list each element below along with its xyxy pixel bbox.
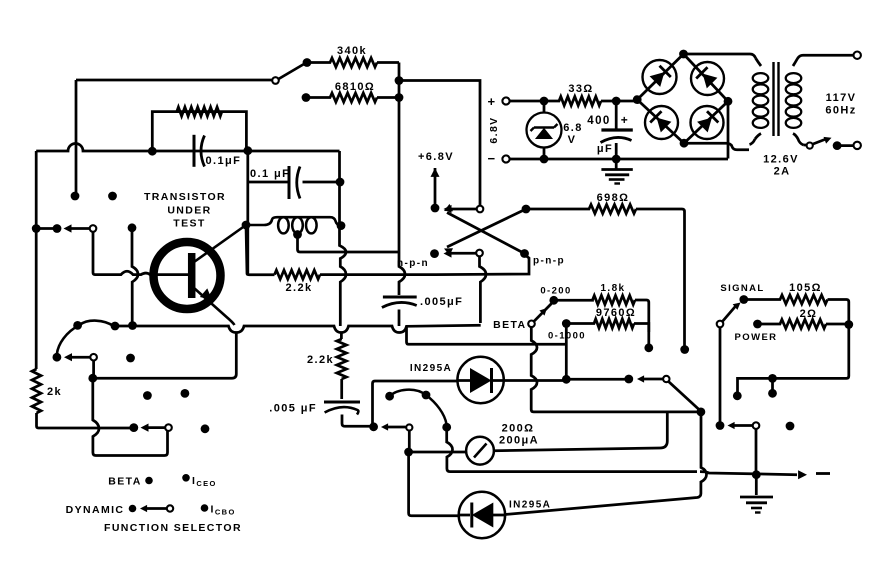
svg-text:V: V <box>568 134 577 146</box>
diode D3 circle <box>645 106 678 139</box>
svg-text:6810Ω: 6810Ω <box>335 81 375 93</box>
node rail x132 <box>128 321 137 330</box>
node sel-a <box>369 422 378 431</box>
transistor Q1 emitter arrow <box>200 288 212 300</box>
diode D1 <box>650 72 665 87</box>
arrow BETA <box>539 308 547 316</box>
svg-text:.005μF: .005μF <box>420 296 463 308</box>
selector common BETA <box>528 321 535 328</box>
ground G1 <box>615 159 618 169</box>
wire bridge bottom link <box>684 143 749 150</box>
main rail <box>115 325 481 332</box>
arrow sel-a <box>381 423 388 430</box>
diode DX1 symbol <box>470 368 492 393</box>
wire top rail to switch S1 <box>76 79 272 82</box>
node bridge right <box>724 97 733 106</box>
legend dot ICBO <box>201 504 209 512</box>
wire xfmr bottom out <box>804 144 807 147</box>
diode DX2 symbol <box>472 503 494 528</box>
box resistor link <box>152 112 246 151</box>
resistor 340k <box>307 58 399 67</box>
wire BETA wiper <box>531 327 699 412</box>
wire DX1 to contact <box>566 378 625 381</box>
capacitor C2 plate2 <box>297 167 300 199</box>
blade DX1 diag <box>669 382 700 410</box>
node row2-y378 <box>88 374 97 383</box>
svg-text:117V: 117V <box>826 92 857 104</box>
selector common row2 <box>90 354 97 361</box>
wire x399 to rail <box>398 310 401 327</box>
svg-text:IN295A: IN295A <box>410 363 452 374</box>
arrow T1 <box>444 205 452 213</box>
wire bridge top to xfmr <box>684 54 756 58</box>
diode DX2 line <box>459 514 505 517</box>
transformer primary leads <box>755 58 761 139</box>
arrow row1 <box>64 224 72 232</box>
svg-text:2Ω: 2Ω <box>800 308 818 320</box>
meter M1 needle <box>474 444 487 458</box>
diode D4 <box>697 118 712 133</box>
wire S2 to terminal <box>837 144 853 147</box>
wire output arrow <box>700 472 797 475</box>
node bridge bottom <box>680 139 689 148</box>
diode DX1 right lead <box>492 379 564 382</box>
wire 0-1000 drop <box>565 324 568 380</box>
svg-text:105Ω: 105Ω <box>789 282 822 294</box>
arrow DYNAMIC <box>140 505 147 512</box>
svg-text:+: + <box>488 94 497 109</box>
capacitor C5 .005uF plate1 <box>324 401 360 404</box>
resistor R4 698 <box>526 205 685 347</box>
transistor Q1 circle <box>154 242 221 309</box>
diode D2 <box>703 74 718 89</box>
diag X A <box>447 209 526 247</box>
contact dot row2 a <box>73 321 82 330</box>
resistor R10 2.2k vert <box>337 333 347 380</box>
diode DX2 circle <box>459 492 505 538</box>
svg-text:+6.8V: +6.8V <box>418 151 454 163</box>
svg-text:12.6V: 12.6V <box>763 154 799 166</box>
legend dot DYNAMIC <box>129 505 137 513</box>
bridge frame <box>637 54 728 143</box>
diag X B <box>447 213 525 254</box>
svg-text:−: − <box>488 151 497 166</box>
capacitor C3 .005uF plate2 <box>382 302 417 307</box>
svg-text:200μA: 200μA <box>499 435 539 447</box>
node X right top <box>522 205 531 214</box>
node L1 tap <box>293 230 302 239</box>
blade T2 <box>449 252 476 255</box>
blade T1 <box>449 208 477 211</box>
wire x447 down <box>447 427 697 471</box>
switch S2 blade <box>813 139 826 144</box>
node C2 right <box>336 178 345 187</box>
arrow row3 <box>141 424 149 432</box>
blade SP <box>722 305 737 322</box>
contact dot row2 b <box>53 353 62 362</box>
diode D2 circle <box>691 62 724 95</box>
rail start dot <box>111 322 120 331</box>
arrow X B <box>444 204 453 211</box>
resistor R6 1.8k <box>554 296 649 346</box>
wire DX1 blade <box>643 378 663 381</box>
arrow +6.8V up <box>431 168 440 177</box>
legend circle DYNAMIC <box>167 505 173 511</box>
capacitor C2 plate1 <box>288 166 291 199</box>
capacitor C4 400uF <box>615 101 618 129</box>
transformer core <box>774 62 779 136</box>
capacitor C1 0.1uF plate1 <box>193 135 196 167</box>
node DX1-0-1000 <box>562 375 571 384</box>
selector common sel <box>406 424 412 430</box>
contact dot sp left <box>733 391 742 400</box>
meter M1 circle <box>466 437 494 465</box>
contact dot row3 right <box>201 424 210 433</box>
node row3 <box>129 423 138 432</box>
wire bridge right drop <box>727 101 730 158</box>
svg-text:BETA: BETA <box>108 476 141 488</box>
svg-text:400: 400 <box>587 115 610 127</box>
wire sp mid stub <box>771 378 774 390</box>
wire xfmr top out <box>803 54 854 57</box>
dash output <box>816 472 830 475</box>
node output-ground <box>752 470 761 479</box>
wire x399 hop <box>399 252 405 295</box>
diode DX1 circle <box>457 357 503 403</box>
svg-text:TEST: TEST <box>173 218 205 230</box>
zener D5 leads <box>543 101 546 159</box>
wire plus rail <box>510 100 557 103</box>
wire T2 drop to rail <box>480 256 487 323</box>
contact dot DX1 end <box>624 375 633 384</box>
resistor R7 9760 <box>566 319 649 332</box>
node bridge top <box>679 50 688 59</box>
svg-text:33Ω: 33Ω <box>568 83 593 95</box>
svg-text:6.8V: 6.8V <box>488 116 500 143</box>
capacitor C2 lead left <box>248 181 288 184</box>
wire row3 blade <box>147 426 165 429</box>
wire meter drop <box>408 431 411 449</box>
node zener bottom <box>540 155 549 164</box>
arrow SP <box>733 303 741 310</box>
svg-text:2k: 2k <box>47 386 62 398</box>
left rail x36 lower <box>37 413 131 428</box>
selector common T1 <box>477 206 484 213</box>
resistor 6810 <box>306 93 399 102</box>
arc rail to contacts <box>57 321 114 354</box>
node A1 <box>395 76 404 85</box>
transistor Q1 collector <box>194 225 246 262</box>
capacitor C3 .005uF plate1 <box>383 296 417 299</box>
wire row1 <box>36 227 54 230</box>
contact dot x132 top <box>128 223 137 232</box>
svg-text:POWER: POWER <box>735 332 778 343</box>
capacitor C1 0.1uF plate2 <box>201 136 205 167</box>
resistor R8 105 <box>744 295 849 322</box>
wire L1 tap down <box>298 235 400 253</box>
node SP bottom <box>716 421 725 430</box>
node npn <box>430 249 439 258</box>
switch S1 blade <box>279 64 305 79</box>
node box right <box>243 146 252 155</box>
resistor R5 33 <box>557 97 634 106</box>
contact dot arc b <box>422 391 431 400</box>
node filter bottom <box>612 155 621 164</box>
wire SP2 drop <box>755 429 758 472</box>
wire 33 to bridge <box>634 100 637 103</box>
resistor Rbox <box>177 107 222 116</box>
wire collector branch <box>246 225 275 275</box>
selector common SP2 <box>753 422 760 429</box>
wire x340 vertical <box>340 151 347 326</box>
arrow SP bottom <box>728 422 735 429</box>
diode D3 <box>657 118 672 133</box>
wire DX2 right <box>505 414 706 515</box>
arrow DX1 blade <box>637 375 644 382</box>
diode DX1 line <box>457 379 470 382</box>
transistor Q1 base lead <box>96 271 188 274</box>
wire sp right net <box>738 325 849 393</box>
wire cap3b chain <box>340 379 343 399</box>
wire right bus vertical x399 <box>398 63 401 253</box>
wire x247 drop <box>246 151 249 274</box>
wire R2 to pnp <box>320 255 529 275</box>
node 0-1000 <box>562 319 571 328</box>
wire x132 vertical <box>132 228 138 322</box>
ground G2 <box>740 496 773 499</box>
svg-text:n-p-n: n-p-n <box>397 258 429 269</box>
svg-text:2.2k: 2.2k <box>307 354 334 366</box>
node sp mid <box>768 374 777 383</box>
svg-text:p-n-p: p-n-p <box>533 256 565 267</box>
terminal 117V bottom <box>854 142 861 149</box>
node 2ohm right <box>844 320 853 329</box>
wire left drop x76 <box>75 80 78 193</box>
wire x94 lower <box>93 378 168 455</box>
capacitor C5 .005uF plate2 <box>325 407 359 414</box>
svg-text:.005 μF: .005 μF <box>269 403 317 415</box>
node +6.8V <box>431 204 440 213</box>
wire to +6.8V feed <box>399 81 480 207</box>
node pnp <box>520 249 529 258</box>
wire cap3b down <box>342 415 370 427</box>
svg-text:340k: 340k <box>337 45 367 57</box>
contact dot 698 end <box>680 345 689 354</box>
contact dot SP right <box>786 422 795 431</box>
node A2 <box>395 93 404 102</box>
inductor L1 <box>246 217 341 225</box>
contact dot SIGNAL <box>739 295 748 304</box>
resistor R3 2k <box>32 369 41 413</box>
terminal minus <box>502 155 509 162</box>
capacitor C2 lead right <box>303 181 341 184</box>
wire SP common drop <box>719 327 722 422</box>
legend dot BETA <box>145 477 153 485</box>
wire row2 blade <box>71 356 91 359</box>
selector common row1 <box>90 225 97 232</box>
contact dot x112 <box>108 192 117 201</box>
diode D1 circle <box>643 60 677 94</box>
wire DYNAMIC <box>146 507 167 510</box>
svg-text:200Ω: 200Ω <box>502 423 535 435</box>
node rail-left row1 <box>32 224 41 233</box>
contact dot row2 c <box>126 354 135 363</box>
svg-text:UNDER: UNDER <box>167 205 211 217</box>
left rail x36 <box>35 151 38 369</box>
svg-text:0.1μF: 0.1μF <box>206 155 242 167</box>
wire +6.8V stem <box>434 168 437 205</box>
selector common DX1 <box>663 376 669 382</box>
arrow row2 <box>64 353 72 361</box>
wire x408 to diode2 <box>409 452 458 516</box>
svg-text:2.2k: 2.2k <box>285 282 312 294</box>
contact dot 0-200 <box>549 296 558 305</box>
svg-text:6.8: 6.8 <box>563 122 583 134</box>
zener D5 symbol <box>531 124 558 131</box>
svg-text:2A: 2A <box>774 166 791 178</box>
zener D5 circle <box>527 113 562 148</box>
svg-text:SIGNAL: SIGNAL <box>720 283 764 294</box>
svg-text:0-200: 0-200 <box>540 286 571 297</box>
wire SP bottom blade <box>733 424 752 427</box>
transformer secondary leads <box>793 55 803 66</box>
svg-text:FUNCTION SELECTOR: FUNCTION SELECTOR <box>104 522 242 534</box>
contact dot R6R7 end <box>644 343 653 352</box>
wire y378 <box>93 333 237 378</box>
resistor R2 2.2k horiz <box>275 270 321 279</box>
wire y151 <box>36 144 339 151</box>
selector common T2 <box>476 250 483 257</box>
node 6810 left <box>302 93 311 102</box>
legend dot ICEO <box>182 474 190 482</box>
svg-text:DYNAMIC: DYNAMIC <box>66 504 125 516</box>
svg-text:60Hz: 60Hz <box>825 105 856 117</box>
terminal plus <box>502 97 509 104</box>
blade BETA <box>534 304 552 322</box>
wire diode1 left <box>373 381 458 425</box>
node junction J1 <box>697 408 706 417</box>
node box left <box>148 147 157 156</box>
contact dot arc a <box>385 392 394 401</box>
contact dot y394 a <box>143 391 152 400</box>
node zener top <box>540 97 549 106</box>
svg-text:1.8k: 1.8k <box>600 283 625 294</box>
svg-text:+: + <box>621 113 629 127</box>
node L1 left <box>242 221 251 230</box>
svg-text:0.1 μF: 0.1 μF <box>250 168 290 180</box>
wire row1 blade <box>70 227 90 230</box>
svg-text:BETA: BETA <box>493 319 526 331</box>
resistor R9 2 <box>758 320 849 329</box>
node arc c <box>442 423 451 432</box>
contact dot row1 <box>53 224 62 233</box>
wire meter left lead <box>409 451 467 454</box>
wire minus rail <box>510 158 728 161</box>
switch S2 common <box>807 143 813 149</box>
node S2 <box>833 141 842 150</box>
wire meter right lead <box>494 412 667 451</box>
svg-text:698Ω: 698Ω <box>597 192 630 204</box>
node meter tee <box>404 448 413 457</box>
transistor Q1 base bar <box>188 253 196 298</box>
arrow S2 <box>824 137 832 144</box>
switch S1 common <box>272 77 279 84</box>
diode D4 circle <box>691 106 724 139</box>
selector common row3 <box>165 424 172 431</box>
svg-text:μF: μF <box>597 143 613 155</box>
arc sel contacts <box>390 390 447 424</box>
contact dot y394 b <box>181 389 190 398</box>
arrow output <box>798 470 807 479</box>
wire sel-a blade <box>387 426 406 429</box>
contact dot x76 <box>71 192 80 201</box>
transformer primary winding <box>753 73 769 83</box>
wire base riser <box>93 232 96 275</box>
wire rail branch y344 <box>407 326 567 344</box>
node bridge left <box>633 95 642 104</box>
ground G2 stem <box>755 475 758 495</box>
selector common SP <box>717 321 724 328</box>
transformer secondary winding <box>786 73 802 83</box>
node filter top <box>612 97 621 106</box>
wire row2 drop <box>92 361 95 377</box>
contact dot POWER <box>753 320 762 329</box>
arrow X A <box>444 248 453 255</box>
svg-text:TRANSISTOR: TRANSISTOR <box>144 191 226 203</box>
transistor Q1 emitter <box>194 288 235 325</box>
node L1 right <box>337 221 346 230</box>
arrow T2 <box>444 249 452 257</box>
contact dot sp mid <box>768 389 777 398</box>
node 340k left <box>303 58 312 67</box>
svg-text:IN295A: IN295A <box>509 500 551 511</box>
terminal 117V top <box>854 52 861 59</box>
